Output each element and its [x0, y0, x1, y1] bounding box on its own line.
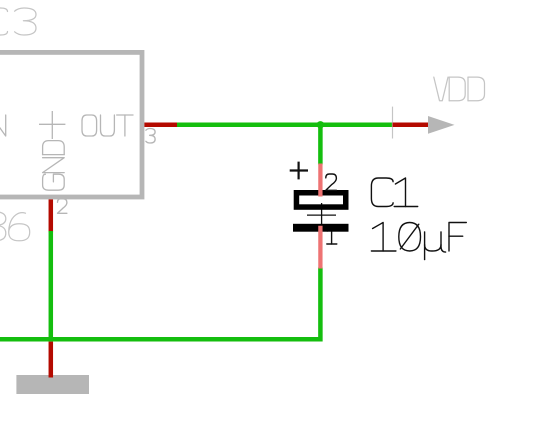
VDD label — [434, 77, 448, 101]
IC3 pin name IN (partial "N") — [0, 115, 6, 136]
ground symbol pin stub — [49, 342, 54, 378]
IC3 pin 3 (OUT) stub — [144, 123, 178, 128]
IC3 origin cross — [39, 111, 65, 139]
pin number 3 — [146, 129, 155, 144]
VDD supply pin stub — [393, 123, 430, 128]
IC3 pin 2 (GND) stub — [49, 199, 54, 232]
VDD arrow — [428, 116, 455, 134]
VDD supply symbol pin tick — [392, 107, 394, 139]
capacitor C1 origin cross — [307, 203, 336, 227]
capacitor C1 pin number 2 — [326, 174, 337, 190]
IC3 name label "IC3" (partially off-canvas) — [0, 8, 8, 35]
capacitor C1 name label — [371, 178, 393, 207]
junction node on VDD net — [317, 121, 324, 128]
capacitor C1 pin number 1 (partially hidden) — [327, 228, 331, 245]
wire: vertical from junction down to capacitor — [318, 125, 323, 165]
capacitor C1 negative plate — [293, 224, 349, 232]
wire: GND net, capacitor bottom to left — [0, 268, 320, 340]
ground symbol bar — [16, 375, 89, 394]
IC3 pin name OUT — [82, 115, 97, 136]
pin number 2 — [58, 199, 67, 214]
capacitor C1 pin 2 wire — [318, 164, 322, 197]
capacitor C1 value label 10uF — [373, 223, 384, 252]
capacitor C1 polarity plus sign — [290, 162, 308, 180]
wire: GND vertical from IC pin 2 down — [49, 231, 54, 342]
voltage regulator IC3 body — [0, 52, 142, 197]
wire: OUT net horizontal to VDD — [177, 123, 393, 128]
capacitor C1 pin 1 wire — [318, 226, 322, 269]
capacitor C1 positive plate — [296, 193, 345, 207]
IC3 value label "LM1086" (partially off-canvas, "86" visible) — [0, 212, 6, 226]
IC3 pin name GND (rotated) — [43, 141, 65, 191]
